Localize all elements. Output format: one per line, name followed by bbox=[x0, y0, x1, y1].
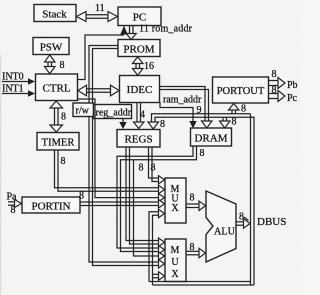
wire bus branch to MUX2 in3 bbox=[134, 160, 165, 260]
block ALU bbox=[206, 191, 236, 262]
wire r/w from CTRL down to MUX1 in3 bbox=[78, 99, 165, 202]
bus PSW-CTRL bidirectional bbox=[45, 55, 56, 74]
arrow PORTOUT to Pc bbox=[268, 91, 285, 102]
bus Stack-PC bidirectional bbox=[77, 12, 118, 22]
bus ALU to DBUS bbox=[236, 219, 250, 228]
bus CTRL-IDEC bidirectional bbox=[78, 85, 119, 96]
bus REGS right output to MUX1 in1 bbox=[149, 147, 165, 184]
bus REGS left output to MUX2 in1 bbox=[126, 147, 165, 247]
block PC bbox=[118, 7, 161, 26]
bus IDEC right to DRAM (down at x~206) bbox=[160, 87, 213, 129]
block REGS bbox=[117, 130, 160, 148]
bus PROM left entry (long bus to MUX2) bbox=[89, 46, 165, 269]
wire CTRL to PC (jump) bbox=[78, 26, 128, 80]
block MUX1 bbox=[165, 178, 186, 223]
bus CTRL-TIMER bidirectional bbox=[50, 101, 63, 132]
block TIMER bbox=[37, 133, 79, 151]
bus PROM-IDEC bidirectional bbox=[133, 57, 144, 75]
box reg_addr label bbox=[94, 105, 132, 119]
block PORTOUT bbox=[213, 77, 269, 103]
scan edge line bbox=[0, 55, 2, 295]
bus PORTIN to MUX1 in4 bbox=[80, 200, 165, 209]
arrow Pa into PORTIN bbox=[8, 200, 22, 208]
block DRAM bbox=[191, 128, 232, 146]
bus TIMER down to MUX1 in2 bbox=[55, 150, 165, 194]
block MUX2 bbox=[165, 239, 186, 282]
wire INT0 bbox=[2, 78, 35, 85]
block PORTIN bbox=[22, 197, 80, 213]
block IDEC bbox=[120, 76, 160, 103]
bus stub down to DRAM right bbox=[220, 117, 231, 128]
scan noise overlay bbox=[0, 0, 1, 1]
bus DRAM bottom to MUX2 in2 bbox=[117, 146, 197, 254]
bus DBUS loop (bottom bus and feedback to MUX inputs) bbox=[149, 209, 254, 285]
arrow PORTOUT to Pb bbox=[268, 78, 285, 89]
bus horizontal y115 (REGS - PORTOUT/DRAM - DBUS) bbox=[148, 114, 254, 285]
bus MUX2 to ALU bbox=[186, 248, 206, 257]
bus PC-PROM rom_addr bbox=[126, 26, 136, 40]
wire ram_addr IDEC to DRAM bbox=[160, 103, 197, 129]
block CTRL bbox=[36, 74, 78, 101]
wire reg_addr to REGS bbox=[119, 119, 126, 130]
block Stack bbox=[34, 5, 76, 22]
bus IDEC to REGS bbox=[134, 103, 145, 129]
block PROM bbox=[118, 40, 160, 57]
bus MUX1 to ALU bbox=[186, 201, 206, 211]
bus stub up to PORTOUT bbox=[229, 104, 240, 114]
box r/w label bbox=[73, 103, 94, 117]
block PSW bbox=[33, 38, 69, 55]
wire INT1 bbox=[2, 90, 35, 97]
